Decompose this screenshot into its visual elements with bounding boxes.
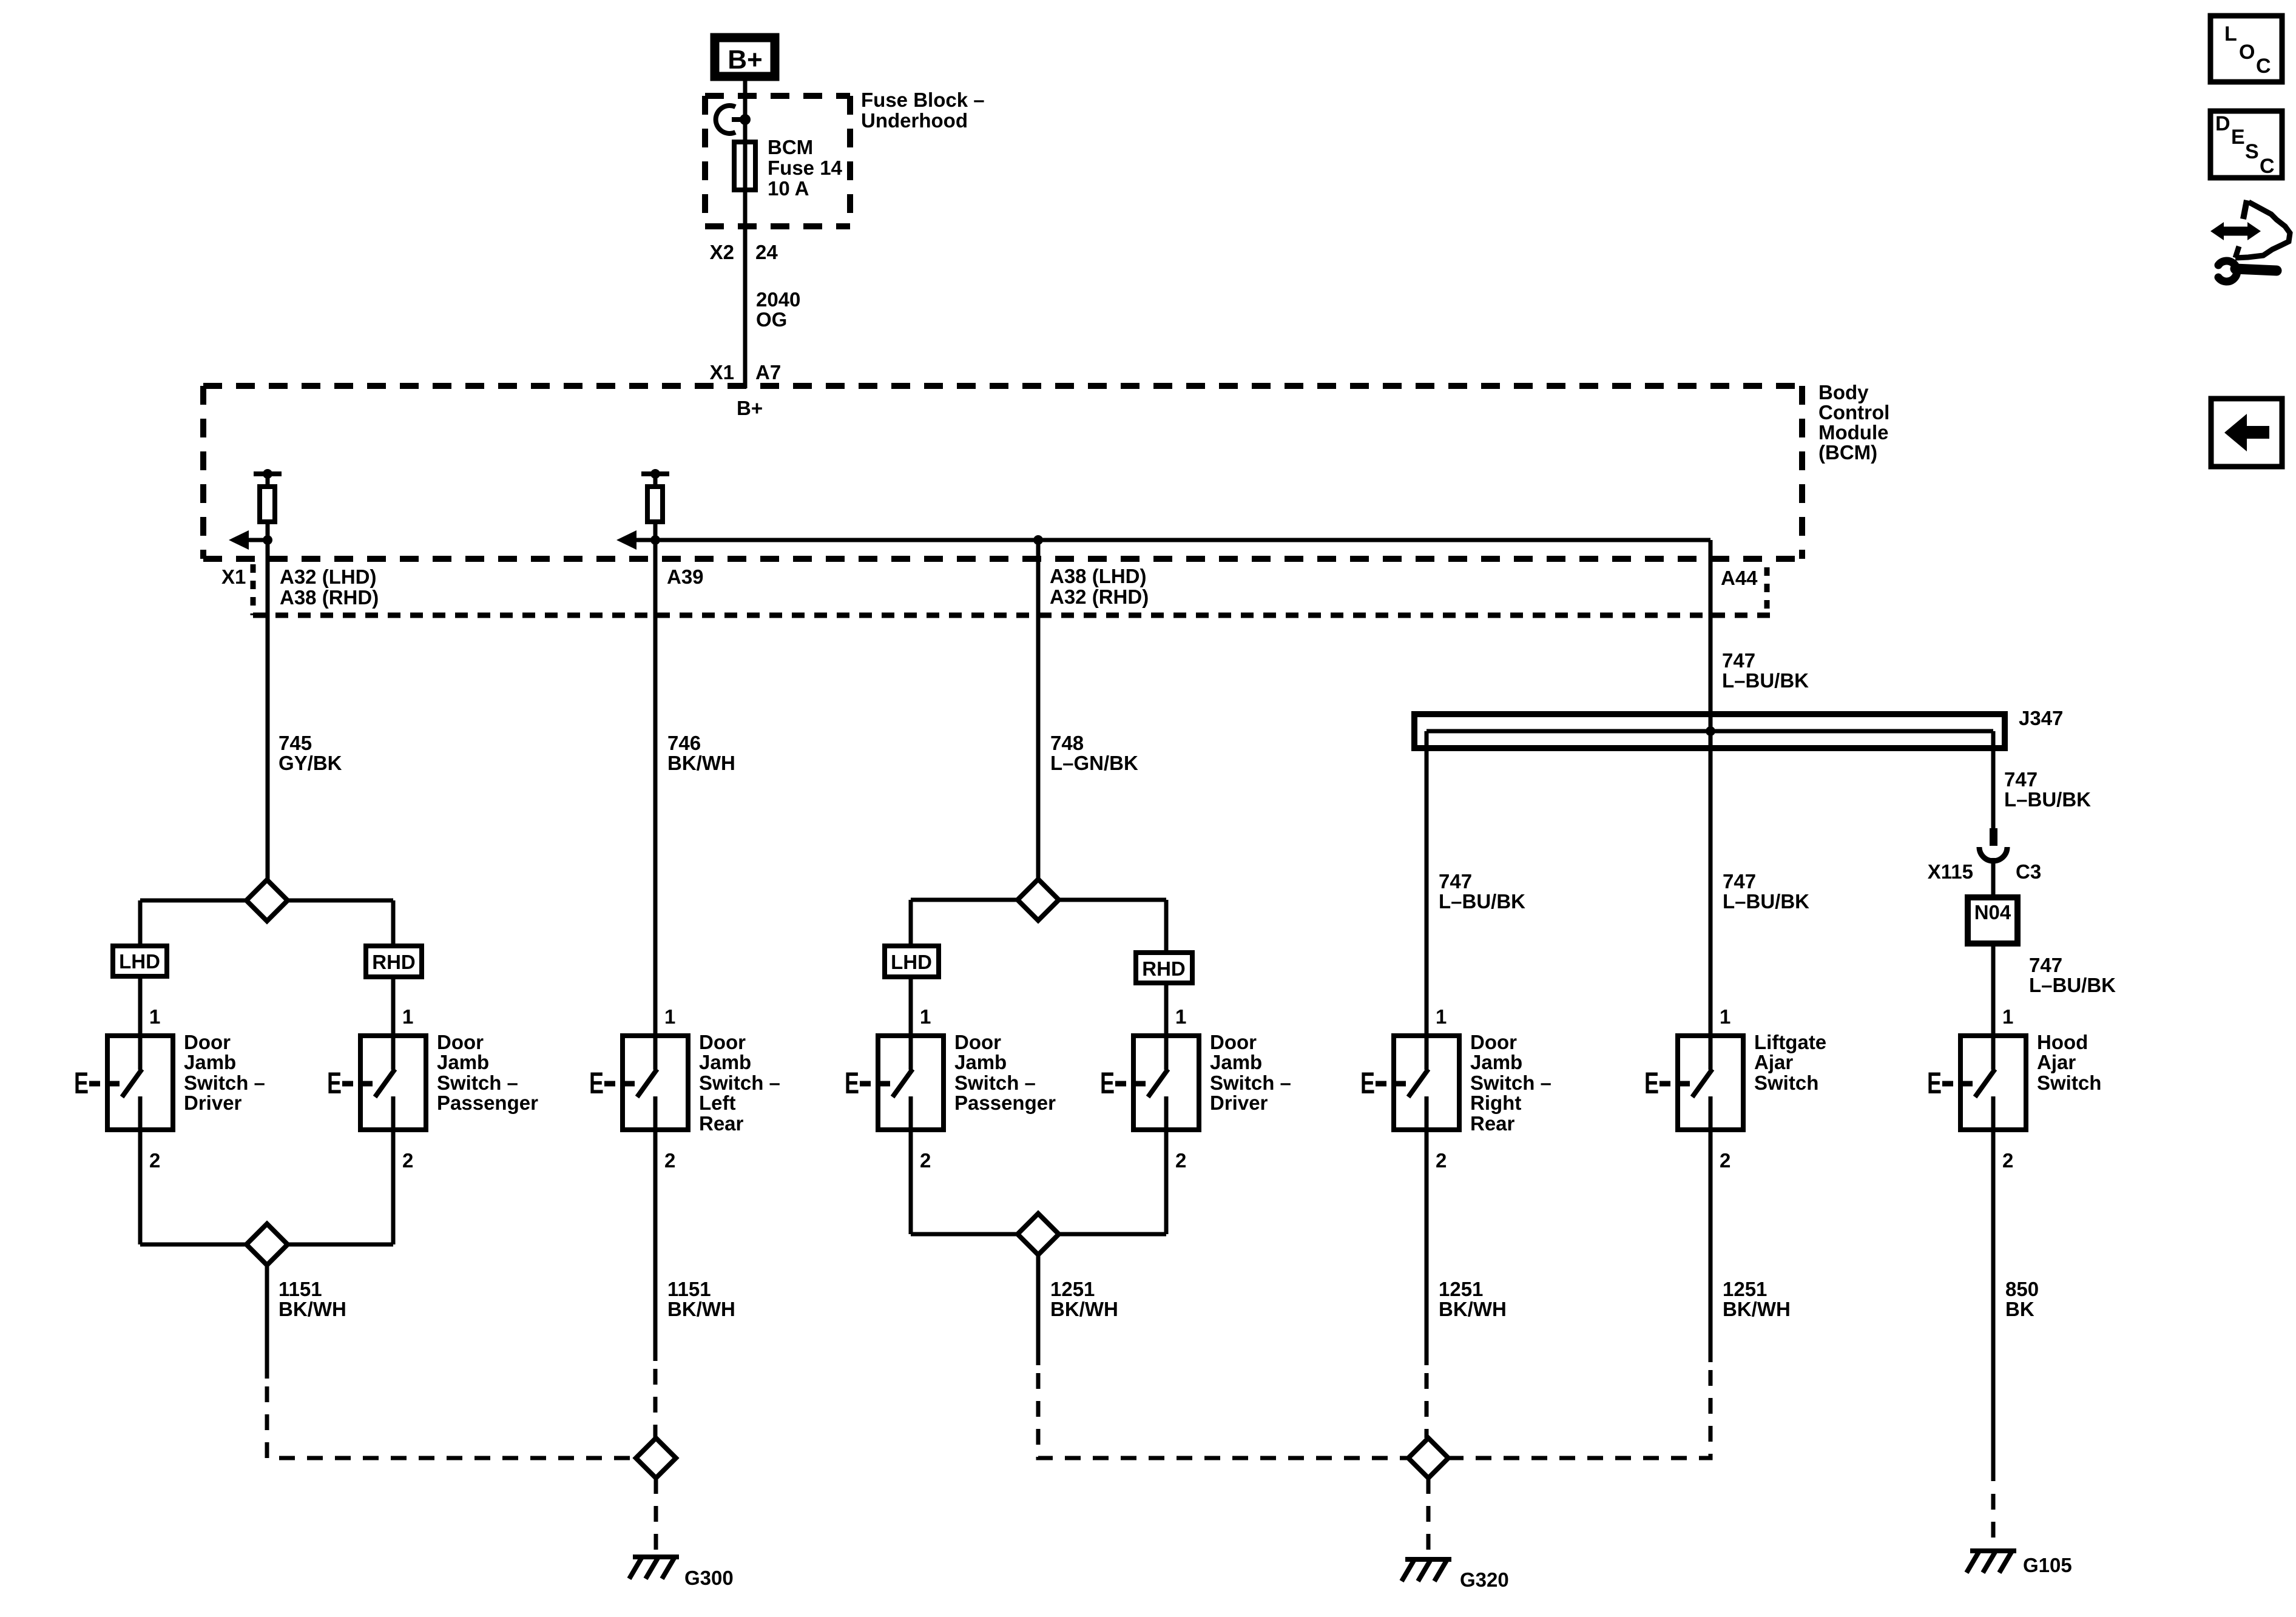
svg-text:L–BU/BK: L–BU/BK [1723,890,1809,913]
rail pair1 top left [140,899,246,903]
svg-text:Switch –: Switch – [184,1072,265,1094]
LOC nav box [2210,16,2282,82]
switch S6 Door Jamb Switch - Right Rear [1360,1030,1459,1135]
svg-text:C3: C3 [2016,860,2041,883]
option box RHD pair1 [366,946,422,977]
svg-text:L–BU/BK: L–BU/BK [2029,974,2116,996]
svg-text:Door: Door [699,1031,746,1053]
svg-text:J347: J347 [2019,707,2063,729]
svg-text:BK: BK [2005,1298,2034,1320]
wire 1151 dashed to splice diamond [653,1369,658,1438]
svg-text:Switch –: Switch – [437,1072,518,1094]
wire 1251 solid below pair2 [1036,1255,1041,1365]
svg-text:1: 1 [1436,1005,1447,1028]
svg-text:BCM: BCM [768,136,813,158]
svg-text:G300: G300 [684,1567,734,1589]
svg-text:2: 2 [664,1149,675,1172]
wire S3 pin2 down solid [653,1132,658,1361]
svg-text:Passenger: Passenger [954,1092,1056,1114]
svg-text:BK/WH: BK/WH [1050,1298,1118,1320]
BCM sense element 1 [254,469,282,540]
switch S7 Liftgate Ajar Switch [1644,1030,1743,1135]
svg-text:BK/WH: BK/WH [1439,1298,1507,1320]
svg-text:2: 2 [1175,1149,1186,1172]
svg-text:E: E [327,1067,342,1100]
svg-text:Right: Right [1470,1092,1521,1114]
fuse BCM Fuse 14 10 A [734,142,755,190]
Fuse Block - Underhood dashed box [705,96,850,226]
switch S5 Door Jamb Switch - Driver [1100,1030,1199,1135]
rail pair2 bottom left [911,1232,1018,1237]
svg-text:X115: X115 [1928,860,1973,883]
wire LHD box to driver switch [138,979,143,1036]
svg-text:LHD: LHD [891,951,932,973]
svg-text:G105: G105 [2023,1554,2072,1576]
harness code N04 [1968,897,2017,944]
signal arrow element 2 [616,530,655,550]
svg-text:747: 747 [2029,954,2062,976]
Body Control Module (BCM) dashed box [203,386,1802,559]
rail pair2 top right [1059,898,1166,902]
junction J347 at 747 feed [1706,726,1715,736]
splice diamond G300 [636,1438,676,1478]
wire to LHD box pair1 [138,900,143,946]
svg-text:1151: 1151 [667,1278,711,1300]
svg-text:Passenger: Passenger [437,1092,538,1114]
wire 850 dashed to G105 [1991,1494,1996,1548]
signal arrow element 1 [229,530,268,550]
svg-text:Jamb: Jamb [437,1051,489,1073]
dashed wire 1151 to G300 splice [267,1386,635,1458]
svg-text:748: 748 [1050,732,1084,754]
option box LHD pair2 [885,946,939,977]
svg-text:A32 (LHD): A32 (LHD) [280,565,377,588]
svg-text:Door: Door [1470,1031,1517,1053]
svg-text:A32 (RHD): A32 (RHD) [1050,586,1149,608]
ground G300 [629,1557,679,1579]
wire S8 pin2 down solid [1991,1132,1996,1481]
svg-text:Switch –: Switch – [1210,1072,1291,1094]
svg-text:Ajar: Ajar [1754,1051,1793,1073]
svg-text:X1: X1 [221,565,246,588]
svg-text:Jamb: Jamb [184,1051,236,1073]
svg-text:1: 1 [149,1005,160,1028]
svg-text:L–BU/BK: L–BU/BK [1439,890,1525,913]
svg-text:E: E [74,1067,89,1100]
wire S6 pin2 down solid [1425,1132,1429,1365]
dashed wire 1251 to G320 splice [1038,1373,1408,1458]
svg-text:Switch –: Switch – [1470,1072,1551,1094]
svg-text:N04: N04 [1974,901,2011,923]
svg-text:S: S [2245,140,2259,163]
svg-text:1251: 1251 [1723,1278,1767,1300]
splice diamond pair1 bottom [246,1224,288,1265]
switch S2 Door Jamb Switch - Passenger [327,1030,426,1135]
svg-text:747: 747 [2004,768,2038,791]
svg-text:747: 747 [1439,870,1472,893]
svg-text:24: 24 [755,241,778,263]
svg-text:L–BU/BK: L–BU/BK [2004,788,2091,811]
svg-text:Door: Door [184,1031,231,1053]
svg-text:1: 1 [664,1005,675,1028]
rail pair2 bottom right [1059,1232,1166,1237]
svg-text:C: C [2260,155,2275,178]
svg-text:2: 2 [1436,1149,1447,1172]
svg-text:GY/BK: GY/BK [279,752,342,774]
wire 747 L-BU/BK to hood switch upper [1991,731,1996,828]
J347 internal bus [1427,729,1993,734]
svg-text:1: 1 [1175,1005,1186,1028]
svg-text:1: 1 [920,1005,931,1028]
splice diamond pair2 bottom [1018,1214,1059,1255]
svg-text:A7: A7 [755,361,781,383]
svg-text:E: E [1360,1067,1375,1100]
svg-text:E: E [1927,1067,1942,1100]
svg-text:Liftgate: Liftgate [1754,1031,1826,1053]
wire 747 L-BU/BK to hood switch lower [1991,944,1996,1033]
svg-text:Door: Door [954,1031,1001,1053]
svg-text:A38 (RHD): A38 (RHD) [280,586,379,609]
wire 1151 solid below pair1 [265,1265,269,1379]
svg-text:D: D [2215,112,2230,135]
DESC nav box [2210,111,2282,178]
svg-text:Switch –: Switch – [699,1072,780,1094]
svg-text:10 A: 10 A [768,177,809,200]
junction wire 748 branch [1033,535,1043,545]
X1 connector bracket right [1764,567,1770,615]
dashed wire 1251 liftgate to G320 splice [1449,1370,1710,1458]
svg-text:X1: X1 [710,361,734,383]
connector stub at fuse input [716,106,751,133]
wire S1 pin2 down [138,1132,143,1244]
rail pair1 top right [288,899,393,903]
svg-text:X2: X2 [710,241,734,263]
wire RHD box to passenger switch [391,979,396,1036]
svg-text:Jamb: Jamb [699,1051,751,1073]
option box RHD pair2 [1136,953,1192,983]
svg-text:Rear: Rear [1470,1112,1515,1135]
svg-text:1: 1 [402,1005,413,1028]
wire RHD box to driver switch [1164,985,1169,1036]
wire 1251 dashed to splice diamond [1425,1373,1429,1438]
X1 connector dotted line [253,613,1772,618]
wire 747 L-BU/BK to right rear switch [1425,731,1429,1033]
svg-text:E: E [2231,126,2245,149]
svg-text:Jamb: Jamb [1470,1051,1522,1073]
splice pack J347 [1414,714,2005,748]
svg-text:2040: 2040 [756,288,800,311]
svg-text:BK/WH: BK/WH [1723,1298,1791,1320]
svg-text:Ajar: Ajar [2037,1051,2076,1073]
wire to LHD box pair2 [909,900,913,946]
svg-text:Door: Door [437,1031,484,1053]
svg-text:1251: 1251 [1439,1278,1483,1300]
switch S1 Door Jamb Switch - Driver [74,1030,173,1135]
svg-text:Module: Module [1818,421,1888,444]
svg-text:RHD: RHD [1142,957,1186,980]
splice diamond pair2 top [1018,879,1059,920]
ground G105 [1967,1551,2016,1573]
svg-text:Body: Body [1818,381,1869,403]
svg-text:B+: B+ [728,45,762,75]
svg-text:747: 747 [1723,870,1756,893]
wire LHD box to passenger switch [909,979,913,1036]
svg-text:E: E [1644,1067,1659,1100]
wire B+ feed vertical [743,81,748,388]
svg-text:Switch: Switch [2037,1072,2101,1094]
wire to RHD box pair1 [391,900,396,946]
svg-text:E: E [589,1067,604,1100]
svg-text:C: C [2256,55,2271,78]
rail pair1 bottom left [140,1243,246,1247]
svg-text:Control: Control [1818,401,1889,424]
switch S4 Door Jamb Switch - Passenger [845,1030,944,1135]
junction at element 2 [650,535,660,545]
svg-text:746: 746 [667,732,701,754]
svg-text:1151: 1151 [279,1278,322,1300]
svg-text:Switch –: Switch – [954,1072,1036,1094]
svg-text:B+: B+ [737,397,763,419]
ground G320 [1402,1559,1451,1581]
svg-text:BK/WH: BK/WH [667,752,735,774]
BCM sense element 2 [641,469,669,540]
svg-text:1: 1 [1720,1005,1730,1028]
wire 748 L-GN/BK vertical [1036,540,1041,879]
svg-text:LHD: LHD [119,950,160,973]
svg-text:747: 747 [1722,649,1755,672]
svg-text:2: 2 [149,1149,160,1172]
dashed wire to G300 [654,1478,658,1553]
svg-text:Switch: Switch [1754,1072,1818,1094]
service tools icon (arrows, panel, wrench) [2210,200,2290,282]
switch S8 Hood Ajar Switch [1927,1030,2026,1135]
wire S2 pin2 down [391,1132,396,1244]
svg-text:2: 2 [402,1149,413,1172]
svg-text:Left: Left [699,1092,736,1114]
svg-text:745: 745 [279,732,312,754]
svg-text:A38 (LHD): A38 (LHD) [1050,565,1147,587]
wire X115 to N04 [1991,858,1996,897]
wire 745 GY/BK vertical [266,540,270,880]
splice diamond G320 [1408,1438,1448,1478]
svg-text:OG: OG [756,308,787,331]
svg-text:G320: G320 [1460,1568,1509,1591]
wire S4 pin2 down [909,1132,913,1234]
svg-text:2: 2 [1720,1149,1730,1172]
svg-text:A44: A44 [1721,567,1758,589]
svg-text:Fuse 14: Fuse 14 [768,157,843,179]
rail pair2 top left [911,898,1018,902]
svg-text:Jamb: Jamb [1210,1051,1262,1073]
svg-text:Driver: Driver [184,1092,242,1114]
svg-text:RHD: RHD [372,951,416,973]
svg-text:Door: Door [1210,1031,1257,1053]
inline connector X115 C3 [1979,828,2007,861]
splice diamond pair1 top [246,880,288,921]
wire S7 pin2 down solid [1709,1132,1713,1362]
svg-text:Jamb: Jamb [954,1051,1007,1073]
wire 747 L-BU/BK from A44 down through J347 [1709,540,1713,1033]
switch S3 Door Jamb Switch - Left Rear [589,1030,688,1135]
option box LHD pair1 [113,946,167,976]
back arrow nav box [2211,399,2282,467]
svg-text:E: E [845,1067,859,1100]
dashed wire to G320 [1427,1478,1431,1553]
svg-text:A39: A39 [667,565,704,588]
svg-text:850: 850 [2005,1278,2039,1300]
svg-text:(BCM): (BCM) [1818,441,1877,464]
svg-text:1: 1 [2002,1005,2013,1028]
wire to RHD box pair2 [1164,900,1169,953]
svg-text:Fuse Block –: Fuse Block – [861,89,985,111]
battery feed B+ terminal [715,38,775,76]
svg-text:BK/WH: BK/WH [279,1298,346,1320]
wire S5 pin2 down [1164,1132,1169,1234]
svg-text:Hood: Hood [2037,1031,2088,1053]
X1 connector bracket left [251,564,256,615]
svg-text:2: 2 [2002,1149,2013,1172]
wire BCM internal bus to A44 [655,538,1710,542]
svg-text:BK/WH: BK/WH [667,1298,735,1320]
svg-text:Rear: Rear [699,1112,744,1135]
rail pair1 bottom right [288,1243,393,1247]
junction at element 1 [263,535,272,545]
svg-text:L: L [2224,22,2237,46]
svg-text:1251: 1251 [1050,1278,1095,1300]
svg-text:L–BU/BK: L–BU/BK [1722,669,1809,692]
wire 746 BK/WH vertical [653,540,658,1033]
svg-text:O: O [2239,41,2255,64]
svg-text:Driver: Driver [1210,1092,1268,1114]
svg-text:E: E [1100,1067,1115,1100]
svg-text:2: 2 [920,1149,931,1172]
svg-text:L–GN/BK: L–GN/BK [1050,752,1138,774]
svg-text:Underhood: Underhood [861,109,968,132]
